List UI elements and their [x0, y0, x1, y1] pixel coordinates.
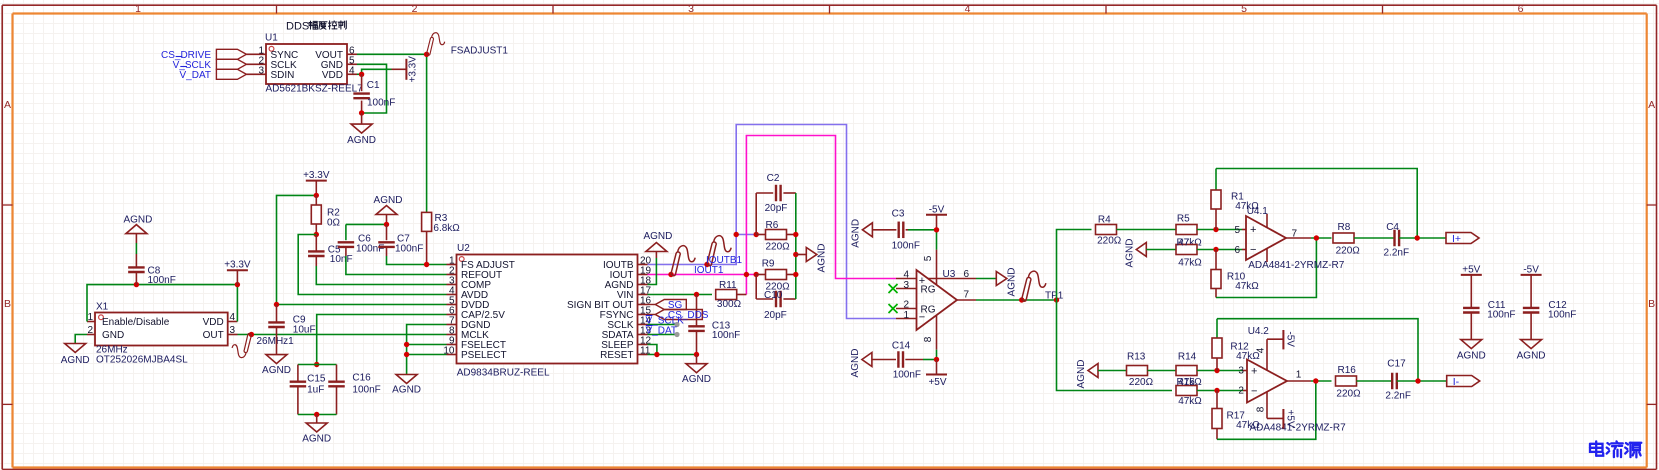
svg-text:AGND: AGND: [123, 215, 152, 226]
junction rail R9: [793, 272, 798, 277]
junction C6 C7 AGND: [384, 222, 389, 227]
wire AGND to R7: [1146, 249, 1175, 251]
svg-text:6: 6: [964, 269, 970, 280]
svg-text:7: 7: [1292, 229, 1298, 240]
svg-text:A: A: [4, 99, 11, 111]
svg-text:300Ω: 300Ω: [717, 299, 742, 310]
svg-text:AGND: AGND: [850, 349, 861, 378]
svg-text:10uF: 10uF: [293, 324, 316, 335]
wire IOUTB net (purple): [648, 125, 897, 319]
wire U3 output to TP1: [976, 299, 1057, 301]
junction IOUT R9 rail: [754, 272, 759, 277]
resistor R11 300: [716, 280, 747, 310]
svg-text:+5V: +5V: [928, 377, 946, 388]
svg-text:20pF: 20pF: [765, 203, 788, 214]
test point TP1: [1022, 271, 1064, 301]
svg-text:2: 2: [1238, 386, 1244, 397]
junction DVDD / C9: [274, 302, 279, 307]
svg-text:220Ω: 220Ω: [1097, 236, 1122, 247]
net flag V_SCLK: [173, 57, 247, 72]
svg-text:Enable/Disable: Enable/Disable: [102, 317, 170, 328]
wire R1 top loop: [1216, 169, 1417, 239]
oscillator X1 OT252026MJBA4SL: [87, 302, 238, 366]
resistor R6 220: [756, 220, 796, 253]
svg-text:5: 5: [923, 255, 934, 261]
svg-text:100nF: 100nF: [1548, 310, 1576, 321]
ground AGND below C11: [1457, 340, 1486, 362]
wire DGND FSELECT PSELECT to AGND: [407, 325, 447, 375]
op-amp U4.2 ADA4841: [1238, 326, 1346, 434]
wire C15 C16 bottom loop: [298, 414, 337, 416]
svg-text:1uF: 1uF: [307, 384, 324, 395]
junction C15 C16 bottom: [314, 412, 319, 417]
svg-text:PSELECT: PSELECT: [461, 350, 507, 361]
ground AGND below C1: [347, 113, 376, 146]
svg-text:AGND: AGND: [302, 434, 331, 445]
svg-text:AGND: AGND: [643, 231, 672, 242]
power -5V above C12: [1521, 264, 1542, 308]
svg-text:100nF: 100nF: [148, 275, 176, 286]
junction PSELECT: [404, 352, 409, 357]
resistor R2 0 ohm: [311, 195, 340, 234]
svg-text:R5: R5: [1177, 213, 1190, 224]
ground AGND at divider rail: [796, 244, 828, 273]
svg-text:3: 3: [258, 65, 264, 76]
svg-text:C4: C4: [1386, 222, 1399, 233]
junction FSELECT: [404, 342, 409, 347]
svg-text:RESET: RESET: [600, 350, 633, 361]
wire R10 bottom loop: [1216, 238, 1316, 298]
svg-text:220Ω: 220Ω: [766, 241, 791, 252]
svg-text:SDIN: SDIN: [271, 70, 295, 81]
capacitor C8 100nF: [128, 234, 176, 286]
resistor R3 6.8k: [422, 212, 461, 264]
svg-text:C17: C17: [1387, 358, 1406, 369]
svg-text:R14: R14: [1178, 351, 1197, 362]
svg-text:R7: R7: [1177, 238, 1190, 249]
junction +3.3V stem X1: [235, 282, 240, 287]
capacitor C2 20pF: [756, 173, 796, 235]
svg-text:RG: RG: [921, 285, 936, 296]
wire C15 C16 top loop: [298, 364, 337, 366]
wire R8 to C4: [1354, 237, 1395, 239]
svg-text:GND: GND: [102, 330, 124, 341]
svg-text:220Ω: 220Ω: [1336, 245, 1361, 256]
svg-text:AGND: AGND: [347, 135, 376, 146]
capacitor C15 1uF: [290, 365, 326, 415]
junction R6 left rail: [754, 232, 759, 237]
svg-text:0Ω: 0Ω: [327, 218, 341, 229]
ground AGND before R13: [1076, 360, 1098, 389]
svg-text:+: +: [1250, 224, 1256, 236]
svg-text:3: 3: [1238, 366, 1244, 377]
op-amp U4.1 ADA4841: [1234, 206, 1344, 271]
capacitor C10 20pF: [756, 275, 796, 322]
ground AGND below C13: [682, 355, 711, 385]
svg-text:100nF: 100nF: [356, 243, 384, 254]
wire CAP/2.5V branch: [317, 315, 447, 365]
svg-text:6: 6: [1518, 3, 1524, 15]
power +3.3V above R2: [303, 170, 330, 195]
wire R13 to R14: [1148, 370, 1176, 372]
svg-text:AGND: AGND: [262, 365, 291, 376]
svg-text:26MHz1: 26MHz1: [257, 336, 295, 347]
svg-text:−: −: [1250, 244, 1256, 256]
frame column numbers: [135, 3, 1524, 15]
junction pin3 R12: [1214, 368, 1219, 373]
svg-text:ADA4841-2YRMZ-R7: ADA4841-2YRMZ-R7: [1250, 423, 1347, 434]
svg-text:7: 7: [964, 290, 970, 301]
svg-text:1: 1: [903, 310, 909, 321]
net flag CS_DDS: [648, 310, 709, 322]
IC U1 AD5621BKSZ-REEL7: [246, 33, 363, 95]
wire X1 OUT to U2 MCLK: [238, 334, 447, 336]
svg-text:100nF: 100nF: [367, 98, 395, 109]
svg-text:U1: U1: [265, 33, 278, 44]
svg-text:220Ω: 220Ω: [1129, 377, 1154, 388]
wire IOUT net (magenta): [648, 136, 897, 295]
svg-text:AGND: AGND: [816, 244, 827, 273]
svg-text:+5V: +5V: [1462, 264, 1480, 275]
wire C17 to port: [1397, 380, 1447, 382]
resistor R5 47k: [1176, 213, 1202, 248]
resistor R7 47k: [1176, 238, 1202, 269]
ground AGND before R7: [1124, 239, 1146, 268]
junction pin5 R1: [1213, 227, 1218, 232]
no-connect X pin3: [889, 284, 898, 293]
power +5V above C11: [1461, 264, 1482, 308]
svg-text:47kΩ: 47kΩ: [1235, 281, 1259, 292]
wire U1 GND loop: [357, 64, 387, 113]
ground AGND above C6 C7: [374, 195, 403, 225]
junction VIN R11 C13: [694, 292, 699, 297]
svg-text:2.2nF: 2.2nF: [1385, 390, 1411, 401]
svg-text:4: 4: [349, 65, 355, 76]
svg-text:V_DAT: V_DAT: [180, 70, 212, 81]
capacitor C1 100nF: [353, 74, 395, 113]
wire R17 bottom loop: [1217, 381, 1316, 439]
svg-text:1: 1: [87, 312, 93, 323]
svg-text:8: 8: [1256, 406, 1267, 412]
port I+: [1446, 233, 1479, 245]
junction output R17: [1313, 378, 1318, 383]
wire R5 to U4.1 pin5: [1197, 229, 1246, 231]
junction C8 bottom: [134, 282, 139, 287]
svg-text:220Ω: 220Ω: [1336, 388, 1361, 399]
junction FSADJUST1: [424, 52, 429, 57]
wire R15 to U4.2 pin2: [1197, 390, 1247, 392]
junction C17 R12 loop: [1415, 378, 1420, 383]
power +5V at U4.2 pin8: [1283, 409, 1295, 429]
svg-text:100nF: 100nF: [352, 384, 380, 395]
svg-text:20pF: 20pF: [764, 310, 787, 321]
wire TP1 vertical bus: [1057, 230, 1173, 391]
wire +3.3V rail to DVDD: [277, 195, 317, 304]
svg-text:AGND: AGND: [374, 195, 403, 206]
svg-text:C1: C1: [367, 80, 380, 91]
junction IOUT1 probe: [668, 272, 673, 277]
wire SLEEP RESET to AGND: [648, 345, 697, 355]
svg-text:3: 3: [688, 3, 694, 15]
junction C15 C16 top: [314, 362, 319, 367]
ground AGND below C9: [262, 355, 291, 376]
net flag SG: [648, 300, 687, 312]
svg-text:I-: I-: [1453, 376, 1460, 388]
op-amp U3: [896, 250, 976, 350]
junction pin2 R17: [1214, 388, 1219, 393]
resistor R15 47k: [1176, 377, 1202, 407]
svg-text:4: 4: [903, 270, 909, 281]
wire FS ADJUST branch: [387, 256, 447, 265]
junction C3 -5V: [934, 227, 939, 232]
junction IOUTB R6: [734, 232, 739, 237]
svg-text:R13: R13: [1127, 351, 1146, 362]
resistor R9 220: [756, 258, 796, 292]
svg-text:R16: R16: [1338, 365, 1357, 376]
wire AGND pin18: [648, 252, 657, 285]
svg-text:3: 3: [230, 325, 236, 336]
svg-text:AGND: AGND: [682, 374, 711, 385]
net flag CS_DRIVE: [161, 49, 246, 61]
wire R14 to U4.2 pin3: [1197, 370, 1247, 372]
svg-text:I+: I+: [1452, 233, 1461, 245]
svg-text:AD5621BKSZ-REEL7: AD5621BKSZ-REEL7: [266, 84, 364, 95]
resistor R13 220: [1127, 351, 1154, 388]
junction C13 bottom: [694, 352, 699, 357]
junction C1 bottom: [359, 110, 364, 115]
capacitor C13 100nF: [688, 295, 740, 355]
net flag V_DAT: [180, 67, 247, 82]
resistor R14 47k: [1176, 351, 1202, 388]
svg-text:DDS: DDS: [286, 21, 309, 33]
svg-text:V_DAT: V_DAT: [646, 325, 678, 336]
junction pin6 R10: [1213, 247, 1218, 252]
capacitor C16 100nF: [328, 365, 381, 415]
ground AGND left of C14: [850, 349, 872, 378]
svg-text:AGND: AGND: [1517, 350, 1546, 361]
junction output R10: [1314, 235, 1319, 240]
resistor R17 47k: [1212, 391, 1260, 440]
net label V_DAT on SDATA: [646, 325, 680, 337]
wire R4 to R5: [1117, 229, 1176, 231]
svg-text:C3: C3: [892, 209, 905, 220]
svg-text:+3.3V: +3.3V: [303, 170, 330, 181]
ground AGND at U3 pin6: [976, 268, 1017, 297]
junction 26MHz1: [249, 332, 254, 337]
svg-text:−: −: [1251, 385, 1257, 397]
svg-text:-5V: -5V: [1285, 331, 1296, 347]
capacitor C11 100nF: [1463, 300, 1516, 340]
test point FSADJUST1: [427, 33, 509, 57]
power +5V at U3: [926, 360, 947, 389]
svg-text:AGND: AGND: [1076, 360, 1087, 389]
test point IOUTB1: [706, 236, 743, 267]
svg-text:R8: R8: [1338, 222, 1351, 233]
capacitor C4 2.2nF: [1384, 222, 1410, 259]
junction SLEEP RESET: [654, 352, 659, 357]
svg-text:R6: R6: [766, 220, 779, 231]
junction R3 bottom: [424, 262, 429, 267]
wire U4.2 output: [1311, 380, 1332, 382]
title DDS amplitude control: [286, 21, 346, 33]
svg-text:A: A: [1648, 99, 1655, 111]
wire X1 supply loop: [87, 285, 237, 322]
svg-text:C10: C10: [764, 290, 783, 301]
junction R2 bottom: [314, 232, 319, 237]
svg-text:4: 4: [1256, 347, 1267, 353]
wire VOUT to FSADJUST1 and R3: [357, 54, 427, 212]
wire VIN branch: [648, 294, 713, 296]
wire AVDD branch: [298, 235, 446, 295]
svg-text:6.8kΩ: 6.8kΩ: [433, 223, 460, 234]
svg-text:+3.3V: +3.3V: [224, 260, 251, 271]
svg-text:B: B: [1648, 298, 1655, 310]
svg-text:U3: U3: [943, 269, 956, 280]
capacitor C17 2.2nF: [1385, 358, 1411, 401]
svg-text:4: 4: [965, 3, 971, 15]
wire R12 top loop: [1217, 319, 1418, 381]
junction U1 VDD: [359, 72, 364, 77]
svg-text:VDD: VDD: [322, 70, 343, 81]
capacitor C9 10uF: [268, 305, 315, 355]
wire C2 R6 R9 C10 right rail: [795, 193, 797, 299]
svg-text:+3.3V: +3.3V: [408, 56, 419, 83]
svg-text:U4.1: U4.1: [1247, 206, 1269, 217]
svg-text:OUT: OUT: [203, 330, 224, 341]
svg-text:+: +: [1251, 365, 1257, 377]
resistor R1 47k feedback: [1211, 169, 1259, 230]
svg-text:AGND: AGND: [1457, 350, 1486, 361]
svg-text:IOUT1: IOUT1: [694, 265, 724, 276]
svg-text:C2: C2: [767, 173, 780, 184]
resistor R16 220: [1336, 365, 1362, 399]
svg-text:OT252026MJBA4SL: OT252026MJBA4SL: [96, 354, 188, 365]
ground AGND left of C3: [850, 219, 872, 248]
wire DVDD branch: [277, 304, 447, 306]
wire C4 to port: [1399, 237, 1446, 239]
junction TP1 probe: [1019, 297, 1024, 302]
svg-text:R15: R15: [1177, 377, 1196, 388]
ground AGND above U2 right: [643, 231, 672, 252]
svg-text:-5V: -5V: [1523, 264, 1539, 275]
svg-text:2.2nF: 2.2nF: [1384, 248, 1410, 259]
svg-text:3: 3: [903, 280, 909, 291]
wire -5V to C3: [908, 230, 937, 250]
frame row letters: [4, 99, 1655, 310]
no-connect X pin2: [889, 304, 898, 313]
svg-text:X1: X1: [96, 302, 109, 313]
svg-text:47kΩ: 47kΩ: [1178, 258, 1202, 269]
svg-text:100nF: 100nF: [1487, 310, 1515, 321]
svg-text:B: B: [4, 298, 11, 310]
wire R16 to C17: [1357, 380, 1393, 382]
junction R2 top: [314, 193, 319, 198]
junction TP1 node: [1054, 297, 1059, 302]
IC U2 AD9834BRUZ-REEL: [443, 243, 651, 379]
svg-text:AGND: AGND: [1124, 239, 1135, 268]
svg-text:ADA4841-2YRMZ-R7: ADA4841-2YRMZ-R7: [1248, 260, 1345, 271]
power -5V at U3: [926, 204, 947, 230]
capacitor C3 100nF: [872, 209, 920, 252]
svg-text:VDD: VDD: [203, 317, 224, 328]
junction IOUT vertical: [744, 272, 749, 277]
svg-text:AD9834BRUZ-REEL: AD9834BRUZ-REEL: [457, 368, 550, 379]
power +3.3V at U1: [392, 56, 419, 83]
ground AGND below DGND rail: [392, 375, 421, 396]
svg-text:2: 2: [412, 3, 418, 15]
svg-text:2: 2: [87, 325, 93, 336]
svg-text:4: 4: [230, 312, 236, 323]
wire AGND to R13: [1098, 370, 1127, 372]
ground AGND above C8: [123, 215, 152, 234]
ground AGND below C15 C16: [302, 415, 331, 445]
svg-text:100nF: 100nF: [893, 369, 921, 380]
wire IOUTB link to R6 (purple): [736, 234, 756, 236]
junction rail AGND: [793, 252, 798, 257]
svg-text:FSADJUST1: FSADJUST1: [451, 46, 509, 57]
svg-text:10nF: 10nF: [330, 254, 353, 265]
wire U1 VDD node: [357, 69, 392, 74]
svg-text:U4.2: U4.2: [1248, 326, 1270, 337]
junction rail R6: [793, 232, 798, 237]
sheet name label (current source): [1590, 441, 1641, 457]
svg-text:-5V: -5V: [929, 204, 945, 215]
wire C6 C7 tops: [346, 223, 387, 225]
test point IOUT1: [671, 246, 724, 276]
svg-text:R9: R9: [762, 258, 775, 269]
junction C14 +5V: [934, 357, 939, 362]
capacitor C12 100nF: [1523, 300, 1577, 340]
resistor R4 220: [1096, 214, 1122, 246]
svg-text:R4: R4: [1098, 214, 1111, 225]
capacitor C6 100nF: [338, 224, 385, 256]
svg-text:8: 8: [923, 336, 934, 342]
junction C4 R1 loop: [1415, 235, 1420, 240]
svg-text:+5V: +5V: [1285, 410, 1296, 428]
capacitor C7 100nF: [378, 224, 423, 256]
resistor R12 47k: [1212, 319, 1260, 371]
svg-text:5: 5: [1234, 225, 1240, 236]
svg-text:U2: U2: [457, 243, 470, 254]
svg-text:C15: C15: [307, 374, 326, 385]
svg-text:C16: C16: [352, 373, 371, 384]
net label V_SCLK on SCLK: [646, 315, 685, 327]
wire REFOUT branch: [346, 256, 447, 275]
power -5V at U4.2 pin4: [1283, 330, 1295, 349]
svg-text:R11: R11: [719, 280, 737, 291]
svg-text:RG: RG: [921, 305, 936, 316]
capacitor C14 100nF: [872, 340, 923, 380]
resistor R8 220: [1333, 222, 1360, 256]
junction IOUTB1 probe: [704, 262, 709, 267]
power +3.3V at X1: [224, 260, 251, 285]
wire +5V to C14: [923, 350, 937, 360]
ground AGND below C12: [1517, 340, 1546, 362]
svg-text:AGND: AGND: [61, 355, 90, 366]
ground AGND at X1 pin2: [61, 335, 90, 367]
svg-text:AGND: AGND: [1006, 268, 1017, 297]
resistor R10 47k: [1211, 250, 1259, 298]
test point 26MHz1: [232, 334, 294, 358]
svg-text:C14: C14: [892, 340, 911, 351]
svg-text:5: 5: [1241, 3, 1247, 15]
svg-text:100nF: 100nF: [712, 330, 740, 341]
svg-text:100nF: 100nF: [395, 243, 423, 254]
svg-text:1: 1: [135, 3, 141, 15]
svg-text:6: 6: [1234, 245, 1240, 256]
svg-text:AGND: AGND: [392, 385, 421, 396]
wire COMP branch: [316, 266, 446, 285]
